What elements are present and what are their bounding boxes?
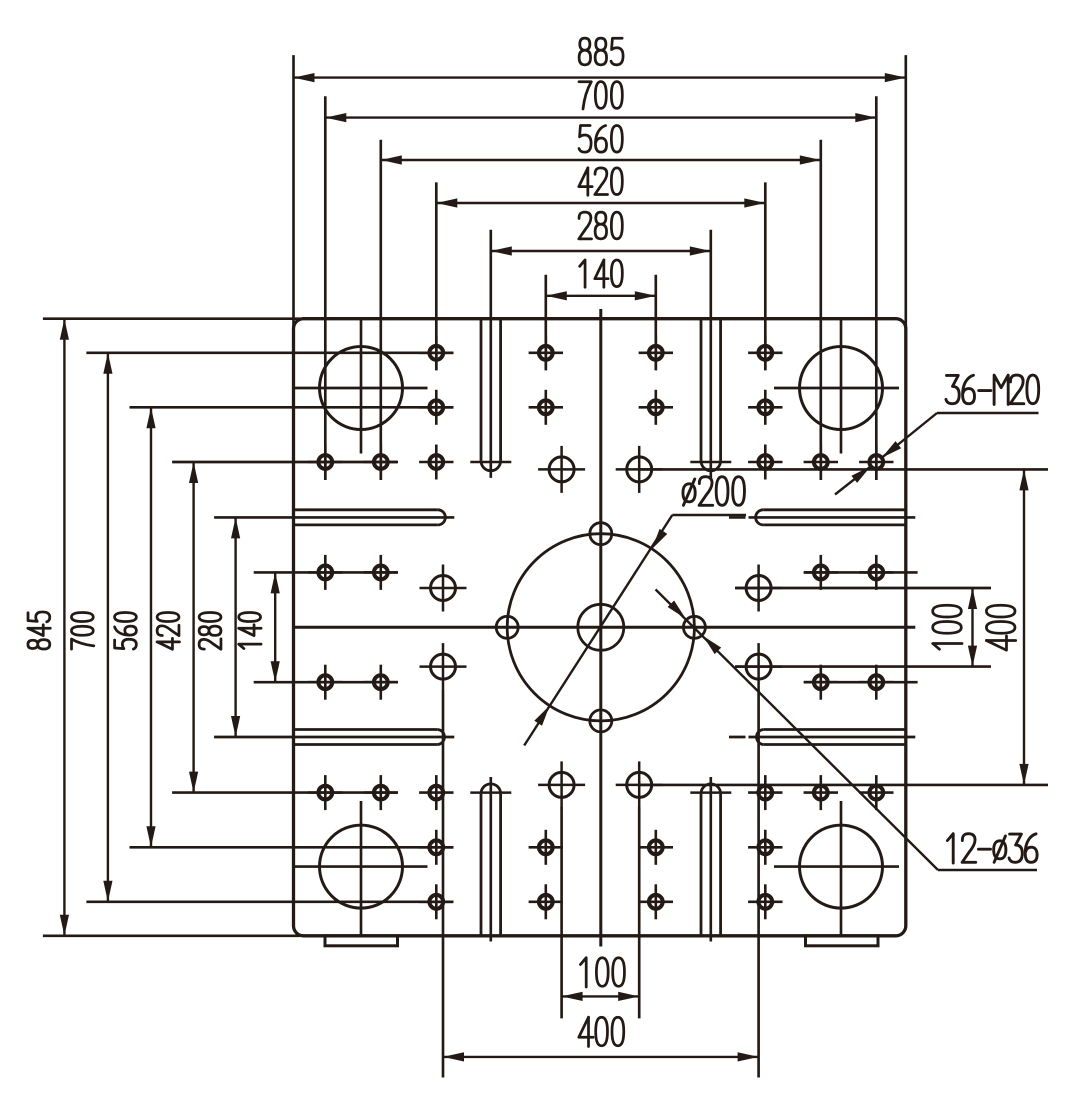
platen plate outline <box>294 319 906 936</box>
tapped hole M20 #8 at (765,407) <box>748 390 782 425</box>
dimension 100 right <box>933 588 977 667</box>
dimension 885 top <box>294 38 906 82</box>
connector row 140-top right <box>804 571 917 574</box>
ext line col 140-right <box>654 275 657 371</box>
dimension 420 left <box>157 462 198 793</box>
ext line row 700-bottom <box>86 900 452 903</box>
dimension 845 left <box>28 319 69 936</box>
vertical centerline <box>599 309 602 947</box>
tie-bar hole bottom-right centerlines <box>774 801 899 936</box>
tapped hole M20 #9 at (325,462) <box>308 445 342 480</box>
tapped hole M20 #34 at (546,902) <box>529 884 563 919</box>
tapped hole M20 #4 at (765,353) <box>748 335 782 370</box>
tie-bar hole top-left centerlines <box>294 319 428 454</box>
mounting foot left <box>325 936 398 946</box>
tie-bar hole bottom-left centerlines <box>294 801 428 936</box>
tapped hole M20 #18 at (876,572) <box>859 555 893 590</box>
tapped hole M20 #6 at (546,407) <box>529 390 563 425</box>
tapped hole M20 #21 at (821,682) <box>804 665 838 700</box>
tapped hole M20 #7 at (656,407) <box>639 390 673 425</box>
ext line col 420-right <box>764 182 767 370</box>
T-slot right upper <box>756 510 906 525</box>
tapped hole M20 #24 at (381,793) <box>364 775 398 810</box>
tapped hole M20 #17 at (821,572) <box>804 555 838 590</box>
hole phi36 #1 at (562,469) <box>538 446 585 493</box>
dimension 560 top <box>381 125 821 164</box>
T-slot left lower <box>294 730 445 745</box>
label phi200 with leader <box>524 477 746 746</box>
ext line row 400-top right <box>639 468 1048 471</box>
tapped hole M20 #25 at (436,793) <box>419 775 453 810</box>
mounting foot right <box>806 936 879 946</box>
dimension 280 left <box>199 517 240 737</box>
tapped hole M20 #31 at (656,847) <box>639 830 673 865</box>
dimension 140 top <box>546 260 656 300</box>
ext line row 420-top <box>172 461 397 464</box>
tapped hole M20 #13 at (821,462) <box>804 445 838 480</box>
ext line col 100-right bottom <box>638 807 641 1018</box>
dimension 400 right <box>986 469 1028 785</box>
T-slot bottom-left <box>470 784 511 936</box>
ext line col 700-right <box>875 96 878 480</box>
tapped hole M20 #5 at (436,407) <box>419 390 453 425</box>
tie-bar hole bottom-left <box>320 825 403 908</box>
ext line row 560-bottom <box>130 846 453 849</box>
ext line row 140-bottom <box>254 681 398 684</box>
central bore circle <box>578 604 624 650</box>
ext line col 280-right <box>709 230 712 478</box>
dimension 140 left <box>239 572 280 682</box>
tapped hole M20 #16 at (381,572) <box>364 555 398 590</box>
ext line col 560-right <box>819 140 822 480</box>
tapped hole M20 #1 at (436,353) <box>419 335 453 370</box>
ext line row 560-top <box>130 406 453 409</box>
locating ring circle phi200 <box>507 534 694 721</box>
tapped hole M20 #14 at (876,462) <box>859 445 893 480</box>
hole phi36 #7 at (759,588) <box>735 565 782 612</box>
T-slot bottom-left centerline <box>489 777 492 942</box>
T-slot top-left <box>470 319 511 471</box>
dimension 560 left <box>115 407 156 847</box>
dimension 280 top <box>491 212 711 255</box>
tapped hole M20 #32 at (765,847) <box>748 830 782 865</box>
dimension 100 bottom <box>562 958 640 1001</box>
T-slot right lower centerline <box>729 736 915 739</box>
tapped hole M20 #3 at (656,353) <box>639 335 673 370</box>
T-slot right upper centerline <box>729 516 915 519</box>
hole phi36 south <box>590 710 612 732</box>
tie-bar hole top-right <box>800 347 883 430</box>
label 36-M20 with leader <box>835 375 1039 494</box>
tapped hole M20 #12 at (765,462) <box>748 445 782 480</box>
tapped hole M20 #26 at (765,793) <box>748 775 782 810</box>
tie-bar hole top-left <box>320 347 403 430</box>
dimension 420 top <box>436 168 765 208</box>
ext line row 140-top <box>254 571 398 574</box>
hole phi36 #5 at (443,588) <box>420 565 467 612</box>
ext line row 400-bottom right <box>639 784 1048 787</box>
ext line col 140-left <box>544 275 547 371</box>
ext line col 885-left <box>292 55 295 330</box>
tapped hole M20 #23 at (325,793) <box>308 775 342 810</box>
label 12-phi36 with leader <box>656 589 1038 870</box>
hole phi36 north <box>590 523 612 545</box>
tapped hole M20 #22 at (876,682) <box>859 665 893 700</box>
ext line row 845-top <box>43 317 300 320</box>
hole phi36 #4 at (639,785) <box>616 761 663 808</box>
T-slot top-right <box>690 319 731 471</box>
connector row 140-bottom right <box>804 681 917 684</box>
hole phi36 #3 at (562,785) <box>538 761 585 808</box>
tie-bar hole top-right centerlines <box>774 319 899 454</box>
tapped hole M20 #30 at (546,847) <box>529 830 563 865</box>
dimension 400 bottom <box>443 1017 759 1061</box>
ext line col 560-left <box>379 140 382 480</box>
tapped hole M20 #11 at (436,462) <box>419 445 453 480</box>
tapped hole M20 #2 at (546,353) <box>529 335 563 370</box>
ext line row 100-top right <box>735 587 991 590</box>
dimension 700 left <box>71 353 112 902</box>
tapped hole M20 #19 at (325,682) <box>308 665 342 700</box>
tapped hole M20 #27 at (821,793) <box>804 775 838 810</box>
ext line row 280-top <box>214 516 454 519</box>
ext line col 400-left bottom <box>442 690 445 1078</box>
tapped hole M20 #20 at (381,682) <box>364 665 398 700</box>
horizontal centerline <box>294 626 915 629</box>
ext line row 845-bottom <box>43 934 300 937</box>
T-slot left upper <box>294 510 446 525</box>
ext line row 700-top <box>86 351 452 354</box>
hole phi36 #6 at (443,667) <box>420 643 467 690</box>
T-slot right lower <box>757 730 906 745</box>
hole phi36 #2 at (639,469) <box>616 446 663 493</box>
hole phi36 east <box>683 616 705 638</box>
tapped hole M20 #33 at (436,902) <box>419 884 453 919</box>
T-slot bottom-right <box>690 784 731 936</box>
dimension 700 top <box>325 82 876 123</box>
ext line col 100-left bottom <box>560 807 563 1018</box>
tie-bar hole bottom-right <box>800 825 883 908</box>
ext line row 420-bottom <box>172 791 397 794</box>
ext line col 700-left <box>324 96 327 480</box>
hole phi36 west <box>496 616 518 638</box>
ext line col 400-right bottom <box>757 690 760 1078</box>
tapped hole M20 #28 at (876,793) <box>859 775 893 810</box>
ext line col 420-left <box>435 182 438 370</box>
tapped hole M20 #29 at (436,847) <box>419 830 453 865</box>
ext line row 280-bottom <box>214 736 454 739</box>
tapped hole M20 #36 at (765,902) <box>748 884 782 919</box>
ext line row 100-bottom right <box>735 665 991 668</box>
T-slot bottom-right centerline <box>709 777 712 942</box>
ext line col 885-right <box>904 55 907 330</box>
tapped hole M20 #15 at (325,572) <box>308 555 342 590</box>
tapped hole M20 #35 at (656,902) <box>639 884 673 919</box>
tapped hole M20 #10 at (381,462) <box>364 445 398 480</box>
hole phi36 #8 at (759,667) <box>735 643 782 690</box>
ext line col 280-left <box>489 230 492 478</box>
